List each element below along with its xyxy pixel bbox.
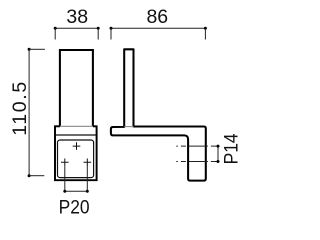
dimension 86: right dot xyxy=(204,27,207,30)
svg-text:P14: P14 xyxy=(220,133,242,164)
dimension P20: right dot xyxy=(86,190,89,193)
dimension 38: right extension line xyxy=(97,28,99,39)
dimension 38: right dot xyxy=(97,27,100,30)
dimension P20: line xyxy=(65,190,88,192)
dimension 38: left extension line xyxy=(54,28,56,39)
front view: inner rounded square xyxy=(58,140,94,178)
dimension P20: left extension line xyxy=(64,166,66,191)
side view: lower hole centerline (dash-dot) xyxy=(176,161,218,163)
dimension 86: right extension line xyxy=(204,28,206,39)
dimension 110.5: vertical line xyxy=(28,49,30,175)
front view: base outer body xyxy=(55,126,97,180)
front view: base top edge black ends xyxy=(54,125,60,127)
dimension 86: line xyxy=(111,27,205,29)
front view: lower-left hole plus mark xyxy=(61,159,69,167)
front view: base lip line xyxy=(55,134,97,136)
front view: base top seam (grey between column edges) xyxy=(60,125,93,127)
svg-text:110.5: 110.5 xyxy=(9,82,31,136)
dimension 110.5: bottom tick xyxy=(29,175,44,177)
dimension P14: vertical line xyxy=(217,146,219,161)
side view: upper hole centerline (dash-dot) xyxy=(176,145,218,147)
dimension 110.5: top tick xyxy=(29,48,45,50)
front view: column xyxy=(60,50,93,126)
dimension 38: left dot xyxy=(54,27,57,30)
front view: top hole plus mark xyxy=(73,142,81,150)
dimension P20: right extension line xyxy=(86,166,88,191)
dimension P20: left dot xyxy=(63,190,66,193)
svg-text:P20: P20 xyxy=(59,197,90,219)
dimension 38: line xyxy=(55,27,98,29)
dimension P14: bottom dot xyxy=(217,160,220,163)
side view: bar/arm seam grey line xyxy=(124,126,133,128)
svg-text:86: 86 xyxy=(146,6,168,28)
dimension 110.5: top dot xyxy=(28,48,31,51)
svg-text:38: 38 xyxy=(66,6,88,28)
front view: lower-right hole plus mark xyxy=(84,159,92,167)
dimension 110.5: bottom dot xyxy=(28,174,31,177)
dimension 86: left extension line xyxy=(110,28,112,39)
side view: L-bracket outline xyxy=(111,49,206,180)
dimension 86: left dot xyxy=(110,27,113,30)
dimension P14: top dot xyxy=(217,145,220,148)
